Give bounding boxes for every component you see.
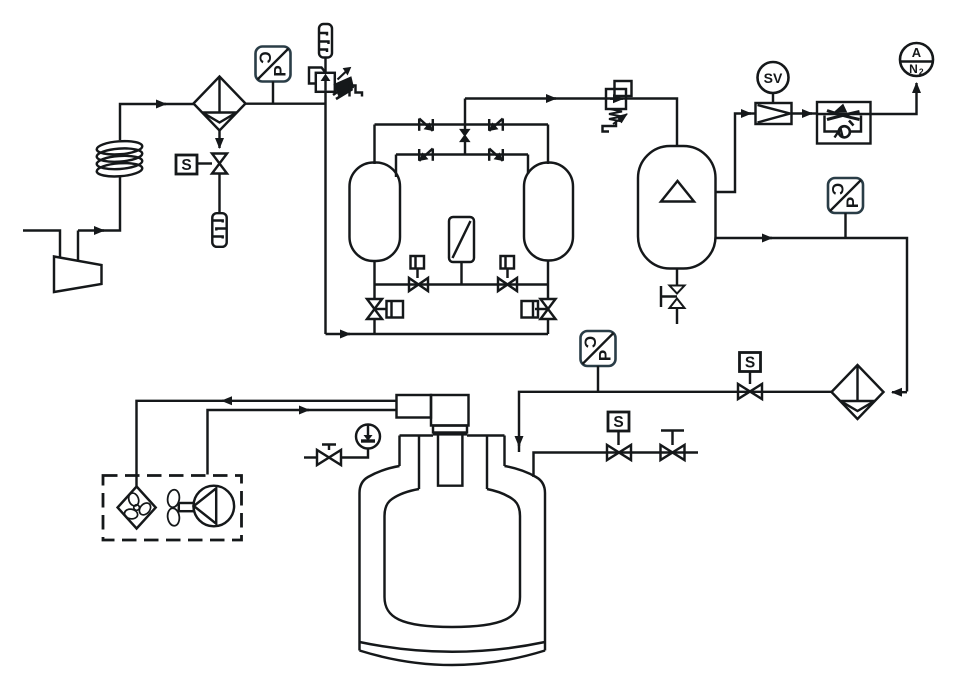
svg-text:N: N bbox=[909, 62, 918, 76]
svg-text:A: A bbox=[912, 45, 922, 60]
svg-text:SV: SV bbox=[764, 70, 783, 86]
svg-text:2: 2 bbox=[919, 66, 924, 76]
